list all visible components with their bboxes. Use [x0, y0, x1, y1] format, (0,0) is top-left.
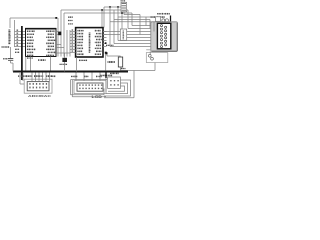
svg-text:ADC/DAC: ADC/DAC — [28, 94, 52, 98]
